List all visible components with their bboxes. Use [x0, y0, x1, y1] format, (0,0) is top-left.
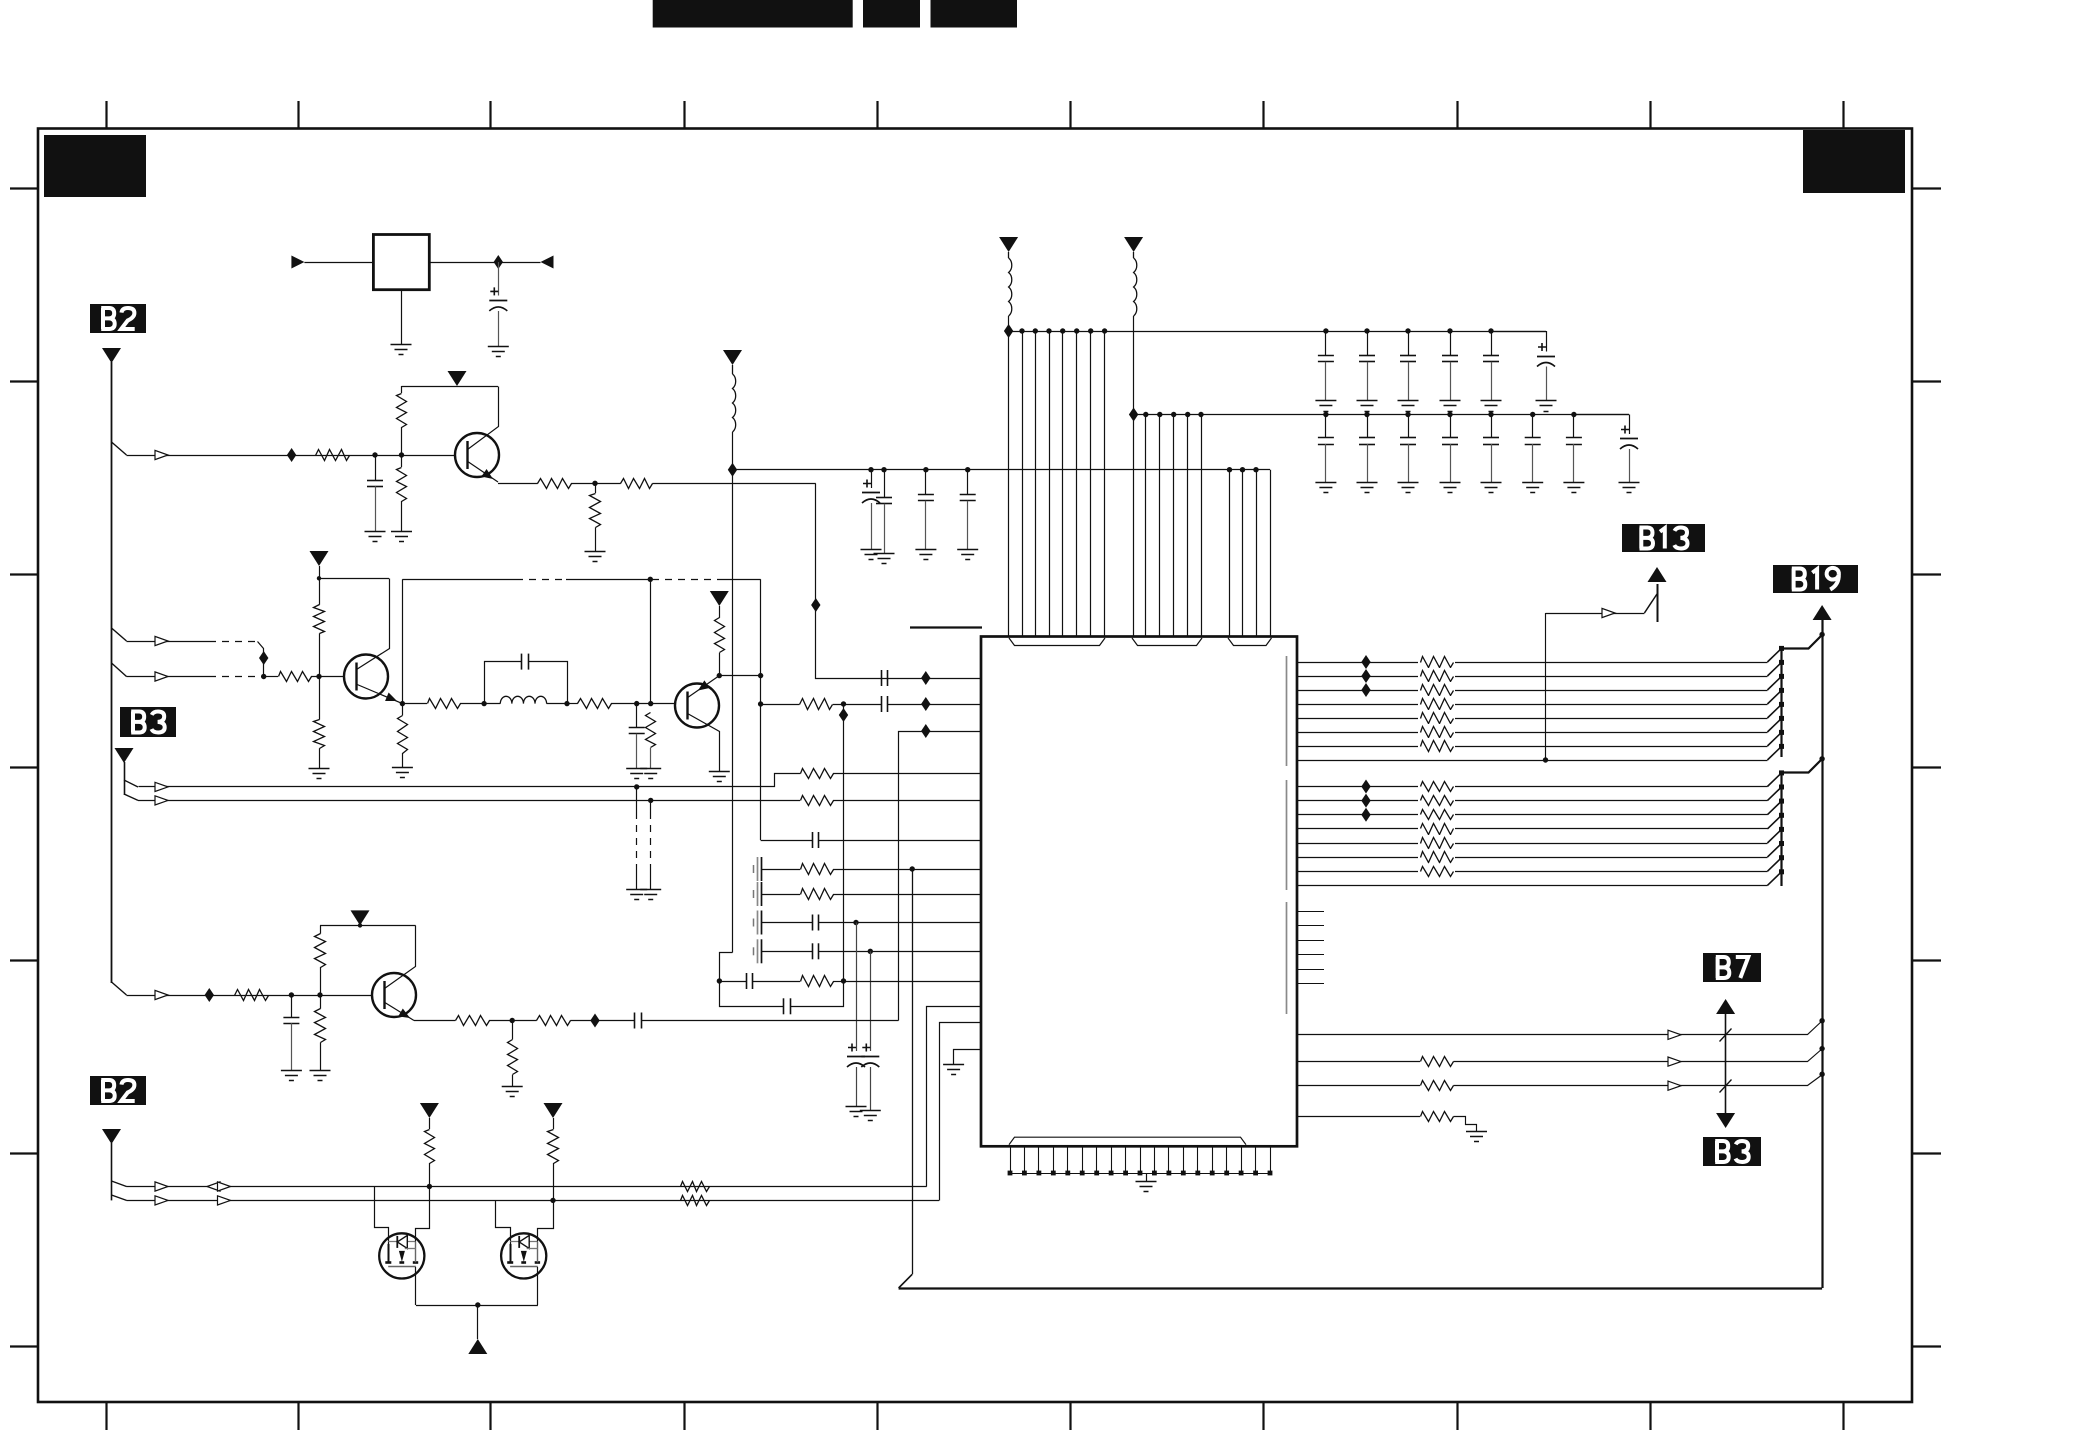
resistor R20 loop	[801, 976, 834, 987]
node dot Q1 base divider	[399, 452, 404, 457]
capacitor C43 row2	[1450, 415, 1452, 438]
sheet arrow B19	[1813, 605, 1832, 620]
ground R25	[502, 1086, 523, 1088]
ground C22	[874, 553, 895, 555]
power arrow M2 drain supply	[544, 1103, 563, 1118]
wire C22 to ground	[884, 504, 886, 553]
resistor R1 base	[316, 450, 350, 461]
resistor row y828	[1418, 821, 1455, 837]
ground C41	[1357, 482, 1378, 484]
node dot Q4 rail	[358, 923, 362, 927]
wire dashed supply net	[402, 579, 516, 581]
power arrow supply coil L3	[1124, 237, 1143, 252]
power arrow M1 drain supply	[420, 1103, 439, 1118]
open arrow B3 row A	[155, 782, 168, 791]
resistor R2 pulldown	[397, 468, 407, 502]
node dot drain R tap 1	[427, 1184, 432, 1189]
node dot Q4 divider tap	[317, 992, 322, 997]
wire row y800 bus diagonal	[1767, 787, 1781, 801]
open arrow B3 row B	[155, 796, 168, 805]
redacted title bar 1	[653, 0, 853, 28]
capacitor C31 row1	[1367, 331, 1369, 356]
crossing tick w3	[1720, 1080, 1732, 1093]
wire R4 to node	[571, 483, 595, 485]
ic U1 bottom notch	[1009, 1137, 1246, 1145]
resistor row y704	[1418, 696, 1455, 712]
wire R30 leads	[553, 1118, 555, 1129]
power arrow Q1 rail	[448, 371, 467, 386]
open arrow wire2	[155, 1196, 168, 1205]
resistor R5 to ground	[590, 494, 601, 528]
resistor R25 to ground	[508, 1040, 518, 1075]
node dot C5 tap	[634, 701, 639, 706]
capacitor C11 stub	[753, 919, 755, 927]
wire branch to Q2 input A	[112, 628, 127, 641]
power arrow Q2 supply	[310, 551, 329, 566]
wire row y662 bus diagonal	[1767, 648, 1781, 662]
wire ic output row y814	[1297, 814, 1767, 816]
ic U1 outline	[981, 637, 1297, 1147]
wire RC loop top left	[719, 981, 746, 983]
ruler tick marks left edge	[10, 189, 38, 1347]
node dot Q4 cap tap	[289, 992, 294, 997]
wire to sheet arrow	[477, 1305, 479, 1339]
capacitor C10 stub	[753, 890, 755, 898]
wire R8 leads	[319, 578, 321, 604]
wire row C12	[761, 922, 812, 924]
wire R13 lead	[650, 748, 652, 768]
node diamond Q4 input	[205, 988, 214, 1002]
wire ic pin row13 to ground	[954, 1050, 982, 1065]
wire Q4 collector	[385, 926, 416, 989]
label B2 (bottom)	[90, 1076, 146, 1105]
node dots bus2 pins	[1143, 412, 1148, 417]
power arrow Q4 rail	[351, 910, 370, 925]
ground R5	[585, 551, 606, 553]
ground ic bottom	[1136, 1181, 1157, 1183]
wire B13 horizontal	[1546, 613, 1645, 615]
wire LC top branch right	[529, 662, 568, 704]
wire ic output row y676	[1297, 676, 1767, 678]
wire ic pin row12 to gate line2	[940, 1023, 982, 1201]
wire R14 leads	[719, 606, 721, 618]
wire loop output to IC	[844, 981, 982, 983]
node diamond bus2 feed	[1129, 408, 1138, 422]
wire dashed supply net seg2	[516, 579, 566, 581]
node dot R25 tap	[510, 1018, 515, 1023]
ic bottom pin array	[1011, 1146, 1271, 1173]
wire R5 leads	[595, 483, 597, 493]
ground C21	[861, 549, 882, 551]
wire row C14	[761, 951, 812, 953]
wire R16 to IC	[833, 773, 981, 775]
wire Q2 input A	[127, 641, 210, 643]
wire Q1 collector	[468, 387, 499, 450]
node dot ecap2 tap	[868, 949, 873, 954]
wire R26 to C20	[570, 1020, 635, 1022]
wire Q3 emitter rail	[719, 675, 760, 677]
wire Q1 supply rail	[402, 386, 499, 388]
capacitor C41 row2	[1367, 415, 1369, 438]
capacitor C6 row	[881, 696, 883, 712]
wire R19 to IC	[833, 894, 981, 896]
transistor Q1	[455, 433, 499, 477]
ground C30	[1315, 400, 1336, 402]
capacitor C21 electrolytic	[863, 480, 871, 488]
ground w4	[1466, 1131, 1487, 1133]
node dot R5 tap	[592, 481, 597, 486]
wire Q1 emitter chain	[498, 483, 538, 485]
capacitor C14 row	[812, 943, 814, 959]
node dot riser x912	[910, 866, 915, 871]
node diamond Q1 input	[287, 448, 296, 462]
wire row y814 bus diagonal	[1767, 801, 1781, 815]
label B3 (left)	[120, 707, 176, 737]
transistor Q3 pnp	[675, 684, 719, 728]
wire bus2 to B19 line	[1782, 759, 1823, 773]
node dot dashed gnd B	[648, 798, 653, 803]
resistor R14 Q3 feed	[715, 618, 725, 653]
ground C16	[860, 1110, 881, 1112]
wire ic output row y885	[1297, 885, 1767, 887]
resistor R21 base	[235, 990, 269, 1001]
ground C34	[1481, 400, 1502, 402]
output arrow left-pointing	[541, 256, 554, 269]
wire C8 to IC	[818, 840, 981, 842]
capacitor C35 electrolytic	[1538, 343, 1546, 351]
wire coil drop jog	[720, 953, 733, 982]
wire output w4	[1297, 1116, 1420, 1118]
wire R11 to LC node	[460, 703, 484, 705]
wire branch to Q1 input	[112, 442, 127, 455]
wire R25 leads	[512, 1021, 514, 1040]
wire C20 to riser	[641, 1020, 898, 1022]
wire output w1	[1298, 1021, 1823, 1035]
wire input B to R7	[264, 676, 278, 678]
sheet arrow up	[468, 1339, 487, 1354]
resistor row y732	[1418, 724, 1455, 740]
wire Q2 input B	[127, 676, 210, 678]
wire output w3	[1297, 1085, 1420, 1087]
wire C5 to ground	[636, 734, 638, 768]
power arrow B2 bottom feed	[102, 1129, 121, 1144]
connector arrow B3 down	[1716, 1113, 1735, 1128]
wire RC loop bottom left	[720, 982, 784, 1007]
wire cap C22 lead	[884, 470, 886, 498]
wire row y732 bus diagonal	[1767, 718, 1781, 732]
ic U1 top notch group1	[1009, 638, 1105, 646]
resistor R8 bias upper	[314, 605, 325, 634]
emitter arrow Q3 pnp	[698, 680, 710, 690]
wire R18 to IC	[833, 869, 981, 871]
wire dashed supply net vertical	[402, 579, 404, 703]
resistor R19 row	[801, 889, 834, 900]
ground U2	[391, 344, 412, 346]
inductor L3	[1133, 252, 1135, 258]
wire row C8 into IC	[761, 840, 812, 842]
wire branch B3 to row B	[124, 794, 138, 800]
inductor L1	[484, 703, 500, 705]
wire C16 to ground	[870, 1067, 872, 1110]
wire C5 lead	[636, 704, 638, 728]
wire C. decoupling lead	[498, 262, 500, 296]
emitter arrow Q2	[385, 693, 397, 701]
resistor row y814	[1418, 807, 1455, 823]
wire R12 to Q3 base	[611, 703, 675, 705]
wire Q2 input A dashed	[209, 641, 257, 643]
wire row y718 bus diagonal	[1767, 704, 1781, 718]
resistor row y786	[1418, 779, 1455, 795]
label B13	[1622, 524, 1705, 552]
wire U2 ground lead	[401, 290, 403, 344]
resistor R4 emitter chain	[538, 479, 572, 489]
wire row y746 bus diagonal	[1767, 732, 1781, 746]
wire C21 to ground	[871, 503, 873, 549]
resistor row y843	[1418, 835, 1455, 851]
node dot input A join	[261, 674, 266, 679]
wire C15 to ground	[856, 1067, 858, 1106]
wire ecap C35 lead	[1546, 331, 1548, 352]
node dot source join	[475, 1302, 480, 1307]
resistor R15 output	[800, 699, 833, 710]
capacitor C1 electrolytic	[490, 287, 498, 295]
ground C46	[1563, 482, 1584, 484]
wire R9 leads	[319, 677, 321, 720]
node dot B19 join2	[1819, 756, 1824, 761]
ic U1 top notch group2	[1132, 638, 1202, 646]
resistor R12 interstage	[578, 699, 612, 709]
wire C12 to IC	[818, 922, 981, 924]
open arrow Q1 input	[155, 450, 168, 459]
resistor R28 wire2	[681, 1196, 710, 1206]
node dot Q3 output	[758, 701, 763, 706]
wire R7 to Q2 base	[311, 676, 345, 678]
resistor R32 w3	[1421, 1081, 1454, 1091]
open arrow w2	[1668, 1057, 1681, 1066]
node dot RC loop right	[841, 978, 846, 983]
wire riser to IC row C	[899, 732, 982, 1021]
capacitor C8 row	[812, 832, 814, 848]
resistor row y718	[1418, 710, 1455, 726]
wire row y857 bus diagonal	[1767, 844, 1781, 858]
wire L4 down to bus3	[732, 432, 734, 953]
capacitor C13 stub	[753, 947, 755, 955]
capacitor C33 row1	[1450, 331, 1452, 356]
wire Q3 collector	[688, 714, 720, 772]
wire C35 to ground	[1546, 367, 1548, 401]
inductor L2	[1008, 252, 1010, 258]
ground C35	[1536, 400, 1557, 402]
wire Q1 emitter	[467, 461, 498, 482]
ic U1 crystal stub line	[910, 626, 982, 628]
capacitor C22	[876, 497, 892, 499]
node U2 output diamond	[494, 255, 503, 269]
arrow marker wire2	[218, 1196, 231, 1205]
ground C5	[626, 768, 647, 770]
node diamond row C	[921, 724, 930, 738]
wire RC loop bottom right	[791, 982, 844, 1007]
wire row2 to ecap	[1574, 414, 1629, 416]
wire C47 to ground	[1629, 449, 1631, 482]
wire L3 to bus2	[1133, 316, 1135, 415]
ic U1 inner bus line 2	[1286, 780, 1288, 890]
capacitor C32 row1	[1408, 331, 1410, 356]
node dots cap row2	[1323, 412, 1328, 417]
wire ic output row y871	[1297, 871, 1767, 873]
node diamond row y690	[1361, 683, 1370, 697]
wire M2 drain lead	[538, 1201, 554, 1242]
ic right stub pins	[1297, 912, 1324, 984]
node dot vertical link top	[841, 701, 846, 706]
ground C42	[1398, 482, 1419, 484]
wire B3 stem	[124, 762, 126, 795]
resistor R13 to ground	[646, 713, 656, 748]
wire ic pin group3 verticals	[1230, 470, 1271, 637]
wire ic pin group1 verticals	[1009, 331, 1105, 637]
wire gate line 1	[127, 1186, 927, 1188]
wire Q1 input	[127, 455, 456, 457]
resistor row y871	[1418, 863, 1455, 879]
open arrow w3	[1668, 1081, 1681, 1090]
power arrow supply coil L2	[999, 237, 1018, 252]
ground C32	[1398, 400, 1419, 402]
title block top-left	[44, 135, 146, 197]
wire ic pin group2 verticals	[1134, 415, 1202, 637]
wire row1 to ecap	[1491, 331, 1546, 333]
wire C2 lead	[375, 455, 377, 480]
wire w4 to ground	[1454, 1117, 1477, 1132]
node dot drain R tap 2	[550, 1198, 555, 1203]
wire row y843 bus diagonal	[1767, 829, 1781, 843]
ground R22	[310, 1070, 331, 1072]
node diamond row y800	[1361, 794, 1370, 808]
ground R13	[640, 768, 661, 770]
wire ic output row y718	[1297, 718, 1767, 720]
ground dashed leg A	[626, 889, 647, 891]
redacted title bar 2	[863, 0, 920, 28]
open arrow B13	[1602, 608, 1615, 617]
resistor row y690	[1418, 682, 1455, 698]
wire ic output row y760	[1297, 760, 1767, 762]
ground C33	[1440, 400, 1461, 402]
ic U1 top notch group3	[1228, 638, 1272, 646]
wire row y690 bus diagonal	[1767, 676, 1781, 690]
wire Q4 input	[127, 995, 374, 997]
capacitor C16 electrolytic	[862, 1044, 870, 1052]
wire input to U2	[304, 262, 373, 264]
node dot ecap1 tap	[853, 920, 858, 925]
wire U2 output	[429, 262, 540, 264]
resistor row y800	[1418, 793, 1455, 809]
wire ic output row y732	[1297, 732, 1767, 734]
wire R20 to node	[833, 981, 844, 983]
resistor R16 row A	[801, 769, 834, 779]
wire L2 to bus1	[1008, 316, 1010, 331]
wire C2 to ground	[375, 486, 377, 531]
node diamond row Q3 out	[921, 697, 930, 711]
wire ic output row y746	[1297, 746, 1767, 748]
wire Q4 emitter	[384, 1002, 414, 1021]
node dot B13 tap	[1543, 757, 1548, 762]
node dot Q2 bias	[316, 674, 321, 679]
resistor R31 w2	[1421, 1057, 1454, 1067]
wire row y676 bus diagonal	[1767, 662, 1781, 676]
wire row y885 bus diagonal	[1767, 872, 1781, 886]
ground C24	[957, 549, 978, 551]
ground C31	[1357, 400, 1378, 402]
capacitor C2	[367, 480, 383, 482]
ground R2	[391, 531, 412, 533]
resistor R30 drain 2	[548, 1130, 559, 1164]
wire Q2 supply node	[319, 566, 321, 578]
open arrow Q4 input	[155, 990, 168, 999]
wire ic output row y800	[1297, 800, 1767, 802]
ground C44	[1481, 482, 1502, 484]
wire B13 tap vertical	[1545, 613, 1547, 760]
wire R17 to IC	[833, 800, 981, 802]
capacitor C4 parallel	[521, 654, 523, 670]
node dots bus3 caps	[868, 467, 873, 472]
wire ecap C21 lead	[871, 470, 873, 488]
open arrow Q2 input A	[155, 636, 168, 645]
wire ic output row y704	[1297, 704, 1767, 706]
ground R9	[309, 768, 330, 770]
ruler tick marks top edge	[107, 101, 1844, 128]
wire ic output row y690	[1297, 690, 1767, 692]
bus collector vertical	[1780, 648, 1782, 757]
resistor R6	[621, 479, 653, 489]
ground C15	[846, 1106, 867, 1108]
wire C23 to ground	[925, 501, 927, 549]
resistor R24 chain	[456, 1016, 490, 1026]
node diamond Q4 out	[590, 1014, 599, 1028]
wire branch wire1	[112, 1181, 127, 1187]
wire input A drop	[258, 642, 264, 677]
node square dots bottom pins	[1008, 1171, 1013, 1176]
wire B7 B3 arrow shaft	[1725, 1014, 1727, 1113]
ic U1 inner bus line 1	[1286, 656, 1288, 766]
wire row R18	[761, 869, 800, 871]
wire Q2 emitter to R11	[402, 703, 427, 705]
resistor R22 pulldown	[315, 1009, 326, 1043]
wire C6 to IC	[888, 704, 982, 706]
wire C17 to R20	[752, 981, 800, 983]
wire B13 stem	[1657, 584, 1659, 622]
wire riser x912 long	[912, 869, 914, 1274]
wire bus1 to B19 line	[1782, 635, 1823, 649]
node dot LC right	[564, 701, 569, 706]
wire ic output row y786	[1297, 786, 1767, 788]
ground C43	[1440, 482, 1461, 484]
wire branch to Q4 input	[112, 982, 127, 995]
node diamond row A	[921, 671, 930, 685]
resistor row y676	[1418, 668, 1455, 684]
wire ic output row y857	[1297, 857, 1767, 859]
wire bus3 rail	[733, 469, 1271, 471]
wire dashed supply net seg5	[718, 579, 761, 581]
wire C1 to ground	[498, 311, 500, 346]
wire Q3 output	[761, 704, 800, 706]
page border frame	[38, 129, 1912, 1403]
label B2 (top)	[90, 304, 146, 333]
capacitor C20 coupling	[634, 1013, 636, 1029]
wire source join	[416, 1305, 538, 1307]
transistor M2 mosfet	[501, 1233, 546, 1278]
wire R10 leads	[402, 704, 404, 716]
wire w3 cont	[1454, 1075, 1823, 1086]
wire ecap C15 lead	[856, 923, 858, 1052]
ground Q3 collector	[709, 771, 730, 773]
